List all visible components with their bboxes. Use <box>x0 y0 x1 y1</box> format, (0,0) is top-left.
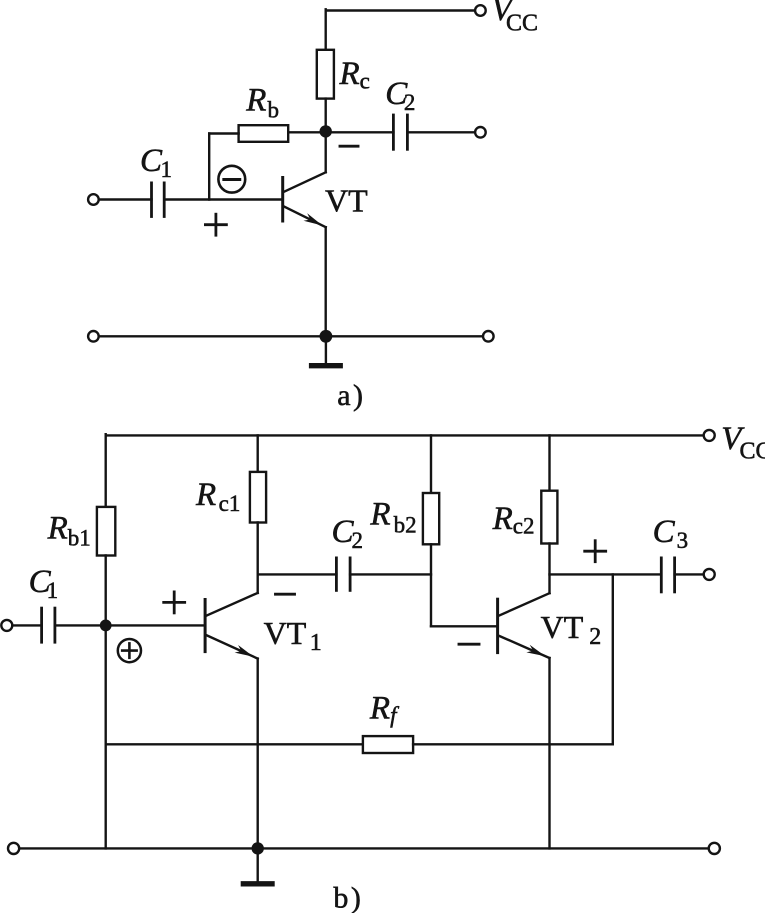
svg-text:CC: CC <box>740 439 765 465</box>
svg-text:a): a) <box>337 379 365 412</box>
svg-text:CC: CC <box>506 11 538 37</box>
svg-text:VT: VT <box>325 183 368 219</box>
svg-text:b): b) <box>333 882 363 913</box>
